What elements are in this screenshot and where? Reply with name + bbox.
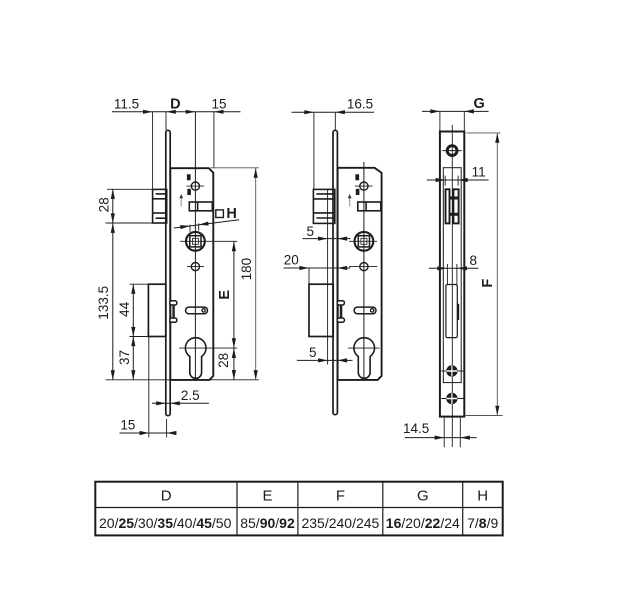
centerline view1 xyxy=(194,112,196,381)
svg-text:37: 37 xyxy=(117,350,132,365)
svg-text:235/240/245: 235/240/245 xyxy=(301,515,379,531)
svg-text:H: H xyxy=(477,488,488,505)
latch bolt view1 xyxy=(153,189,167,223)
svg-text:133.5: 133.5 xyxy=(96,286,111,320)
svg-text:44: 44 xyxy=(117,301,132,317)
dim 8 xyxy=(429,267,479,269)
dim line top view2 xyxy=(292,111,375,113)
deadbolt window view3 xyxy=(446,285,457,338)
centerline view3 xyxy=(451,125,453,447)
dim 15 bottom xyxy=(120,432,177,434)
screw hole mid view1 xyxy=(191,263,199,271)
screw top view3 xyxy=(447,146,457,156)
svg-text:G: G xyxy=(417,488,429,505)
dim 20 xyxy=(284,267,351,269)
clip view2 xyxy=(338,305,340,318)
ext case bottom long xyxy=(106,379,259,381)
svg-text:20: 20 xyxy=(284,252,299,267)
oval slot view1 xyxy=(186,307,208,314)
ext deadbolt bottom xyxy=(130,336,149,338)
dim 14.5 xyxy=(405,437,477,439)
dim F xyxy=(466,132,500,134)
deadbolt view1 xyxy=(148,284,165,336)
table frame xyxy=(95,482,502,536)
case view1 xyxy=(170,168,213,380)
follower slot view1 xyxy=(189,202,212,211)
svg-text:180: 180 xyxy=(239,258,254,281)
svg-text:E: E xyxy=(262,488,272,505)
svg-text:2.5: 2.5 xyxy=(181,388,200,403)
hub view2 xyxy=(355,232,374,251)
ext latch bottom xyxy=(106,222,153,224)
svg-text:E: E xyxy=(217,290,233,300)
euro cylinder view2 xyxy=(354,338,375,379)
arrow 11.5 left xyxy=(143,110,153,114)
svg-text:11.5: 11.5 xyxy=(114,96,139,111)
oval slot view2 xyxy=(354,307,376,314)
dim 11 xyxy=(427,179,489,181)
svg-text:16.5: 16.5 xyxy=(347,97,373,112)
plate outline view3 xyxy=(440,132,464,417)
hub view1 xyxy=(186,232,205,251)
ext latch top xyxy=(107,188,153,190)
euro cylinder view1 xyxy=(185,338,206,379)
square symbol H xyxy=(216,210,224,218)
svg-text:14.5: 14.5 xyxy=(403,421,429,436)
ext G left xyxy=(439,111,441,131)
dim 2.5 xyxy=(152,402,209,404)
svg-text:8: 8 xyxy=(469,253,477,268)
latch window view3 xyxy=(446,189,459,223)
dim 133.5 xyxy=(112,223,114,380)
svg-text:D: D xyxy=(161,488,172,505)
up arrow symbol view1 xyxy=(180,198,182,207)
svg-text:5: 5 xyxy=(309,345,317,360)
dim 44 xyxy=(132,284,134,336)
svg-text:28: 28 xyxy=(96,197,111,212)
arrow D right xyxy=(186,110,196,114)
case view2 xyxy=(338,168,382,380)
ext line case back xyxy=(213,112,215,168)
ext line latch face xyxy=(152,112,154,189)
ext deadbolt face lower xyxy=(148,337,150,438)
dim 180 xyxy=(211,167,259,169)
centerline view2 xyxy=(363,162,365,380)
svg-text:F: F xyxy=(480,279,496,288)
faceplate view2 xyxy=(333,130,337,414)
svg-text:F: F xyxy=(336,488,345,505)
screw marker rect view2 xyxy=(355,174,359,180)
screw hole top view1 xyxy=(191,182,199,190)
dim 28 lower xyxy=(233,348,235,380)
svg-text:11: 11 xyxy=(472,164,486,179)
screw marker rect view1 xyxy=(187,174,191,180)
screw mid view3 xyxy=(441,370,464,372)
ext deadbolt top xyxy=(130,283,149,285)
svg-text:D: D xyxy=(170,96,180,112)
screw bottom view3 xyxy=(441,398,464,400)
follower slot view2 xyxy=(358,202,381,211)
arrow D left xyxy=(166,110,176,114)
ext line faceplate front xyxy=(165,112,167,131)
svg-text:16/20/22/24: 16/20/22/24 xyxy=(386,515,460,531)
svg-text:15: 15 xyxy=(211,96,226,111)
ext faceplate view2 xyxy=(334,112,336,130)
plate recess view3 xyxy=(443,168,461,383)
screw hole mid view2 xyxy=(360,263,368,271)
dim 28 latch xyxy=(112,189,114,223)
ext latch face view2 xyxy=(313,112,315,189)
svg-text:15: 15 xyxy=(120,418,135,433)
svg-text:20/25/30/35/40/45/50: 20/25/30/35/40/45/50 xyxy=(99,515,232,531)
dim 37 xyxy=(132,337,134,380)
dim line top view1 xyxy=(112,111,241,113)
dim G line xyxy=(422,110,489,112)
svg-text:5: 5 xyxy=(307,224,315,239)
small mark view2 xyxy=(356,189,360,195)
svg-text:85/90/92: 85/90/92 xyxy=(240,515,295,531)
faceplate view1 xyxy=(166,130,170,415)
dim 5 upper xyxy=(303,238,351,240)
svg-text:28: 28 xyxy=(216,353,231,368)
screw hole top view2 xyxy=(360,182,368,190)
dim 5 lower xyxy=(297,359,353,361)
ext G right xyxy=(463,111,465,131)
svg-text:G: G xyxy=(474,96,485,112)
up arrow symbol view2 xyxy=(349,198,351,207)
dim E xyxy=(233,241,235,348)
small mark view1 xyxy=(187,189,191,195)
ext faceplate lower xyxy=(166,419,168,438)
arrow 15 right xyxy=(214,110,224,114)
deadbolt view2 xyxy=(309,284,333,336)
latch bolt view2 xyxy=(313,189,334,223)
svg-text:7/8/9: 7/8/9 xyxy=(467,515,498,531)
slanted dim H xyxy=(174,220,239,228)
latch divider line view2 xyxy=(327,189,329,364)
clip view1 xyxy=(170,305,172,318)
